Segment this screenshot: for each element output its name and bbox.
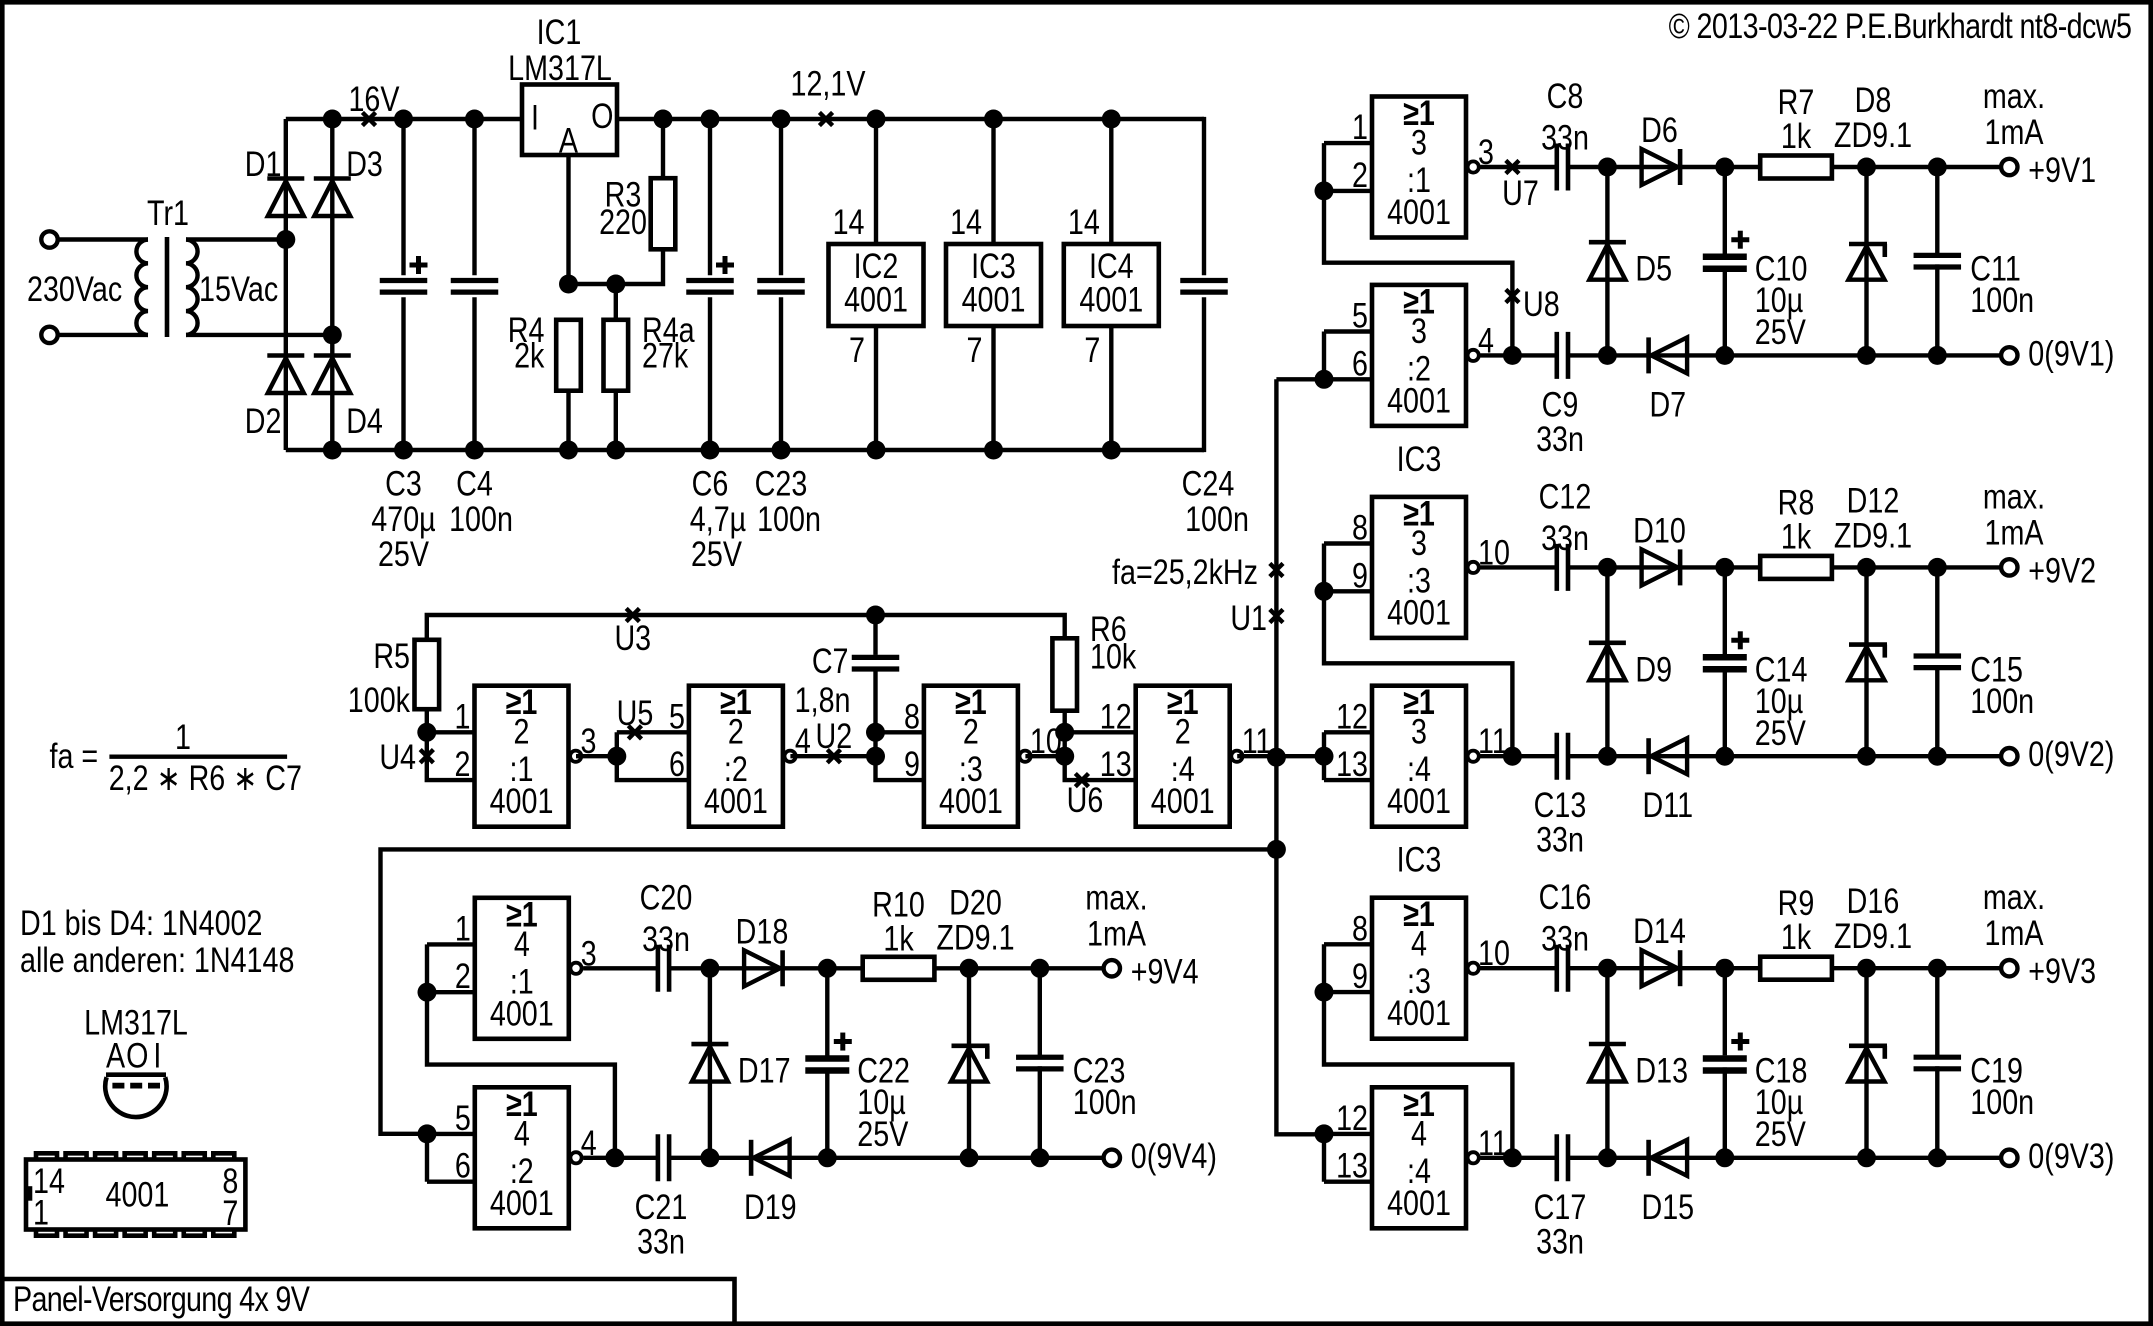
label R10 designator — [872, 885, 925, 924]
svg-text:2,2 ∗ R6 ∗ C7: 2,2 ∗ R6 ∗ C7 — [109, 758, 302, 797]
capacitor C11 — [1914, 255, 1962, 267]
svg-text:2k: 2k — [514, 336, 545, 375]
node node 16V — [362, 112, 375, 125]
svg-text:1k: 1k — [1781, 517, 1812, 556]
svg-text:0(9V1): 0(9V1) — [2028, 334, 2114, 373]
label C22 designator — [857, 1051, 910, 1090]
label IC1 designator — [537, 12, 582, 51]
label node U2 name — [816, 716, 853, 755]
label R9 value 1k — [1781, 917, 1812, 956]
wire R5 to gate 2:1 inputs — [425, 709, 429, 732]
svg-text:1mA: 1mA — [1984, 913, 2044, 952]
label D9 designator — [1635, 650, 1672, 689]
svg-text:33n: 33n — [1536, 1222, 1584, 1261]
svg-text:1mA: 1mA — [1087, 914, 1147, 953]
label output label 0(9V2) — [2028, 734, 2114, 773]
svg-text:3: 3 — [1478, 132, 1494, 171]
label output label 0(9V1) — [2028, 334, 2114, 373]
resistor R8 — [1760, 556, 1832, 579]
diode D2 — [267, 356, 304, 394]
svg-text:U3: U3 — [614, 618, 651, 657]
label C7 designator — [812, 641, 849, 680]
junction 9V2 section node top 1724.8 — [1715, 558, 1734, 577]
label C7 value 1,8n — [795, 680, 851, 719]
wire 9V2 section upper gate input bracket — [1322, 544, 1326, 592]
svg-text:0(9V3): 0(9V3) — [2028, 1136, 2114, 1175]
svg-text:D19: D19 — [744, 1187, 797, 1226]
svg-text:+9V2: +9V2 — [2028, 551, 2096, 590]
label IC2 gate 2:2 pin 6 — [669, 744, 685, 783]
junction 9V3 section node bottom 1866.5 — [1857, 1148, 1876, 1167]
terminal output +9V4 — [1104, 960, 1120, 976]
label IC2 gate 2:3 pin 10 — [1030, 721, 1062, 760]
svg-text:9: 9 — [904, 744, 920, 783]
svg-text:D15: D15 — [1641, 1187, 1694, 1226]
label C20 value 33n — [642, 919, 690, 958]
label node U7 name — [1502, 173, 1539, 212]
capacitor C20 — [658, 945, 669, 992]
junction 9V3 section node bottom 1724.8 — [1715, 1148, 1734, 1167]
svg-text:4001: 4001 — [1387, 781, 1451, 820]
label LM317L pin I — [153, 1036, 161, 1075]
svg-text:C4: C4 — [456, 464, 493, 503]
label D6 designator — [1641, 110, 1678, 149]
label diode D2 designator — [245, 401, 282, 440]
label 9V4 section max. rating — [1085, 878, 1147, 917]
junction ADJ node at R4 — [559, 275, 578, 294]
label C16 value 33n — [1541, 919, 1589, 958]
wire 9V3 section out-cap column top — [1935, 968, 1939, 1055]
svg-text:100k: 100k — [348, 680, 411, 719]
svg-text:C16: C16 — [1539, 877, 1592, 916]
label diode D3 designator — [346, 144, 383, 183]
svg-text:4001: 4001 — [1387, 593, 1451, 632]
wire 9V3 section electrolytic column bottom — [1723, 1067, 1727, 1157]
svg-text:100n: 100n — [1073, 1082, 1137, 1121]
svg-text:4001: 4001 — [490, 781, 554, 820]
svg-text:D3: D3 — [346, 144, 383, 183]
svg-text:fa =: fa = — [50, 736, 99, 775]
label voltage 16V — [348, 79, 400, 118]
svg-text:D2: D2 — [245, 401, 282, 440]
svg-text:© 2013-03-22 P.E.Burkhardt nt8: © 2013-03-22 P.E.Burkhardt nt8-dcw5 — [1669, 6, 2132, 45]
svg-text:230Vac: 230Vac — [27, 269, 122, 308]
label D10 designator — [1633, 511, 1686, 550]
wire 9V3 section bottom wire after C17 — [1568, 1156, 2001, 1160]
wire 9V1 section lower gate input bracket — [1322, 332, 1326, 380]
junction node C7 top — [866, 606, 885, 625]
label C4 value 100n — [449, 499, 513, 538]
junction top rail at R3 — [654, 110, 673, 129]
svg-text:alle anderen: 1N4148: alle anderen: 1N4148 — [20, 940, 294, 979]
terminal output 0(9V2) — [2001, 748, 2017, 764]
label voltage 230Vac — [27, 269, 122, 308]
capacitor C23 (100n) — [757, 119, 805, 450]
capacitor C24 (100n) — [1180, 281, 1228, 453]
wire secondary top to bridge — [186, 237, 286, 241]
diode D10 — [1642, 549, 1681, 585]
junction 9V2 section node bottom 1937.3 — [1928, 747, 1947, 766]
label C3 value 25V — [378, 534, 430, 573]
wire 9V1 section out-cap column bottom — [1935, 264, 1939, 355]
label node fa=25,2kHz — [1112, 552, 1258, 591]
svg-text:C9: C9 — [1542, 385, 1579, 424]
diode D3 — [314, 179, 351, 217]
op-amp-style NOR gate IC4 gate 4:1 (4001 4:1) — [475, 895, 582, 1039]
label R9 designator — [1778, 883, 1815, 922]
junction node R5/pin1 — [417, 723, 436, 742]
wire bridge left column — [284, 119, 288, 450]
label C24 value 100n — [1185, 499, 1249, 538]
label C14 designator — [1755, 650, 1808, 689]
svg-text:0(9V2): 0(9V2) — [2028, 734, 2114, 773]
label LM317L package title — [84, 1003, 188, 1042]
diode D13 — [1589, 1044, 1626, 1082]
label R4 value 'R4' — [508, 310, 545, 349]
label IC2 gate 2:1 pin 2 — [455, 744, 471, 783]
resistor R5 — [415, 640, 440, 709]
label DIP pin 7 — [222, 1193, 238, 1232]
svg-text:25V: 25V — [691, 534, 743, 573]
label IC2 pin 14 number — [833, 202, 865, 241]
svg-text:0(9V4): 0(9V4) — [1131, 1136, 1217, 1175]
junction 9V3 section upper bracket node — [1315, 983, 1334, 1002]
label output label +9V4 — [1131, 952, 1199, 991]
wire 9V2 section zener column — [1864, 567, 1868, 756]
wire gate 2:4 output to bus — [1237, 754, 1276, 758]
junction 9V4 section node top D17 — [700, 959, 719, 978]
svg-text:12: 12 — [1336, 697, 1368, 736]
IC IC3 power block — [946, 244, 1041, 326]
svg-text:100n: 100n — [449, 499, 513, 538]
capacitor C7 — [852, 615, 900, 732]
svg-text:2: 2 — [728, 712, 744, 751]
wire 9V4 section gate 4:2 input bracket — [425, 1134, 429, 1182]
junction 9V4 section gate 4:2 bracket node — [418, 1124, 437, 1143]
label diode D1 designator — [245, 144, 282, 183]
label IC4 gate 4:2 pin 4 — [581, 1123, 597, 1162]
label D13 designator — [1635, 1051, 1688, 1090]
junction 9V1 section node top 1937.3 — [1928, 158, 1947, 177]
capacitor C14 (electrolytic) — [1703, 631, 1750, 669]
svg-text:4001: 4001 — [704, 781, 768, 820]
label C8 designator — [1547, 76, 1584, 115]
terminal output +9V3 — [2001, 960, 2017, 976]
label DIP pin 8 — [222, 1161, 238, 1200]
label C23 value 100n — [757, 499, 821, 538]
svg-text:12: 12 — [1100, 697, 1132, 736]
capacitor C3 (electrolytic 470u) — [380, 119, 428, 450]
svg-text:4001: 4001 — [844, 280, 908, 319]
svg-text:33n: 33n — [642, 919, 690, 958]
svg-text:U6: U6 — [1067, 780, 1104, 819]
diode D19 — [751, 1140, 790, 1176]
wire 9V1 section inter-gate feedback link — [1324, 191, 1512, 356]
svg-text:1mA: 1mA — [1984, 513, 2044, 552]
wire gate 2:1 input bracket — [427, 732, 474, 780]
svg-text:4001: 4001 — [962, 280, 1026, 319]
terminal output 0(9V3) — [2001, 1150, 2017, 1166]
label output label 0(9V4) — [1131, 1136, 1217, 1175]
wire 9V3 section upper gate output wire — [1480, 966, 1556, 970]
label node U1 name — [1230, 598, 1267, 637]
svg-text:9: 9 — [1352, 556, 1368, 595]
label IC1 type LM317L — [508, 48, 612, 87]
svg-text:25V: 25V — [1755, 1114, 1807, 1153]
label 9V2 section lower gate pin 13 — [1336, 744, 1368, 783]
top supply rail 16V — [286, 117, 522, 121]
label 9V3 section upper gate pin 8 — [1352, 909, 1368, 948]
junction top rail at C6 — [701, 110, 720, 129]
svg-text:ZD9.1: ZD9.1 — [1834, 115, 1912, 154]
svg-text:3: 3 — [1411, 712, 1427, 751]
resistor R9 — [1760, 957, 1832, 980]
terminal output 0(9V1) — [2001, 347, 2017, 363]
svg-text:100n: 100n — [1970, 681, 2034, 720]
svg-text:D7: D7 — [1649, 385, 1686, 424]
label formula denominator — [109, 758, 302, 797]
op-amp-style NOR gate IC2 gate 2:1 (4001 2:1) — [475, 682, 582, 826]
label 9V3 section upper gate pin 9 — [1352, 956, 1368, 995]
label R4 value '2k' — [514, 336, 545, 375]
svg-text:5: 5 — [455, 1098, 471, 1137]
LM317L package outline (TO-92 bottom view) — [106, 1072, 166, 1077]
wire gate 2:3 output — [1025, 754, 1064, 758]
label C3 value 470u — [371, 499, 435, 538]
svg-text:+9V3: +9V3 — [2028, 951, 2096, 990]
wire 9V3 section D13 column — [1605, 968, 1609, 1158]
svg-text:33n: 33n — [1536, 419, 1584, 458]
label C17 value 33n — [1536, 1222, 1584, 1261]
label IC2 pin 7 number — [849, 330, 865, 369]
svg-text:4: 4 — [514, 924, 530, 963]
label node U8 name — [1523, 284, 1560, 323]
wire 9V1 section top wire after C8 — [1568, 165, 2001, 169]
svg-text:4: 4 — [514, 1114, 530, 1153]
wire top rail corner to C24 — [1202, 117, 1206, 275]
wire 9V2 section bottom wire after C13 — [1568, 754, 2001, 758]
wire IC2 pin 7 — [874, 326, 878, 450]
label IC3 pin 7 number — [967, 330, 983, 369]
IC IC2 power block — [829, 244, 924, 326]
regulator IC1 LM317L — [522, 85, 617, 156]
svg-text:11: 11 — [1478, 1123, 1508, 1162]
wire 9V3 section lower gate output wire — [1480, 1156, 1556, 1160]
wire 9V3 section inter-gate feedback link — [1324, 992, 1512, 1158]
label output label 0(9V3) — [2028, 1136, 2114, 1175]
wire gate 2:2 output — [790, 754, 875, 758]
resistor R7 — [1760, 156, 1832, 179]
wire 9V1 section zener column — [1864, 167, 1868, 355]
wire R3 top connection — [661, 119, 665, 178]
capacitor C18 (electrolytic) — [1703, 1033, 1750, 1071]
label C23 output value 100n — [1073, 1082, 1137, 1121]
junction 9V2 section node bottom 1607.4 — [1598, 747, 1617, 766]
label C22 value 25V — [857, 1114, 909, 1153]
svg-text:+9V1: +9V1 — [2028, 150, 2096, 189]
label D16 designator — [1847, 881, 1900, 920]
diode D15 — [1649, 1140, 1688, 1176]
svg-text:C13: C13 — [1534, 785, 1587, 824]
svg-text:ZD9.1: ZD9.1 — [1834, 916, 1912, 955]
label D17 designator — [738, 1051, 791, 1090]
capacitor C9 — [1557, 332, 1568, 379]
label C9 designator — [1542, 385, 1579, 424]
wire IC1 adjust pin — [566, 155, 570, 284]
wire 9V4 section D17 column — [708, 968, 712, 1158]
svg-text:4: 4 — [1411, 924, 1427, 963]
IC IC4 power block — [1064, 244, 1159, 326]
label C15 designator — [1970, 650, 2023, 689]
svg-text:C8: C8 — [1547, 76, 1584, 115]
wire 9V1 section upper gate input bracket — [1322, 143, 1326, 191]
svg-text:A: A — [106, 1036, 126, 1075]
svg-text:D14: D14 — [1633, 911, 1686, 950]
wire R6 bottom — [1062, 711, 1066, 733]
transformer Tr1 windings and core — [136, 237, 197, 337]
label IC4 pin 7 number — [1084, 330, 1100, 369]
label IC designator IC3 9V2 section — [1397, 439, 1442, 478]
svg-text:D4: D4 — [346, 401, 383, 440]
svg-text:1mA: 1mA — [1984, 112, 2044, 151]
svg-text:ZD9.1: ZD9.1 — [1834, 516, 1912, 555]
wire 9V4 section lower gate output wire — [583, 1156, 658, 1160]
wire 9V1 section out-cap column top — [1935, 167, 1939, 253]
wire IC2 pin 14 — [874, 119, 878, 244]
capacitor C16 — [1557, 945, 1568, 992]
junction 9V4 section link to 4:2 output node — [605, 1148, 624, 1167]
label 9V1 section lower gate pin 6 — [1352, 344, 1368, 383]
svg-text:max.: max. — [1983, 877, 2045, 916]
svg-text:27k: 27k — [642, 336, 689, 375]
junction top rail at C3 — [394, 110, 413, 129]
wire gate 2:2 input bracket — [617, 732, 688, 780]
label node U4 name — [379, 737, 416, 776]
label 9V2 section lower gate pin 12 — [1336, 697, 1368, 736]
svg-text:ZD9.1: ZD9.1 — [936, 918, 1014, 957]
svg-text:D12: D12 — [1847, 481, 1900, 520]
label IC2 gate 2:1 pin 3 — [581, 721, 597, 760]
terminal mains input top — [41, 231, 57, 247]
svg-text:I: I — [153, 1036, 161, 1075]
svg-text:4001: 4001 — [1079, 280, 1143, 319]
junction top rail at IC2 pin14 — [867, 110, 886, 129]
label C15 value 100n — [1970, 681, 2034, 720]
junction bottom rail at C23 — [772, 441, 791, 460]
label output label +9V1 — [2028, 150, 2096, 189]
wire gate 2:3 input bracket — [876, 732, 923, 780]
svg-text:U5: U5 — [617, 693, 654, 732]
wire IC3 pin 14 — [991, 119, 995, 244]
svg-text:D20: D20 — [949, 883, 1002, 922]
label D8 value ZD9.1 — [1834, 115, 1912, 154]
junction 9V3 lower bracket node — [1315, 1124, 1334, 1143]
label D15 designator — [1641, 1187, 1694, 1226]
junction 9V3 section node top 1937.3 — [1928, 959, 1947, 978]
svg-text:C20: C20 — [640, 878, 693, 917]
label D11 designator — [1643, 785, 1694, 824]
svg-text:4001: 4001 — [490, 994, 554, 1033]
op-amp-style NOR gate IC2 gate 2:2 (4001 2:2) — [689, 682, 796, 826]
svg-text:4: 4 — [1411, 1114, 1427, 1153]
svg-text:D17: D17 — [738, 1051, 791, 1090]
svg-text:1: 1 — [33, 1193, 49, 1232]
label output label +9V3 — [2028, 951, 2096, 990]
label C13 value 33n — [1536, 820, 1584, 859]
terminal mains input bottom — [41, 327, 57, 343]
junction 9V1 section node bottom 1937.3 — [1928, 346, 1947, 365]
node node U2 — [827, 750, 840, 763]
label C6 value 25V — [691, 534, 743, 573]
label C12 value 33n — [1541, 518, 1589, 557]
junction 9V2 section node bottom 1866.5 — [1857, 747, 1876, 766]
junction bottom rail at R4 — [559, 441, 578, 460]
junction bottom rail at C4 — [465, 441, 484, 460]
svg-text:C21: C21 — [635, 1187, 688, 1226]
junction bus node to 9V4 section — [1267, 840, 1286, 859]
label node U6 name — [1067, 780, 1104, 819]
svg-text:U1: U1 — [1230, 598, 1267, 637]
svg-text:2: 2 — [1352, 155, 1368, 194]
label C18 value 10u — [1755, 1082, 1803, 1121]
label formula fa = — [50, 736, 99, 775]
svg-text:4001: 4001 — [1151, 781, 1215, 820]
label IC4 gate 4:1 pin 1 — [455, 909, 471, 948]
label IC designator IC3 9V3 section — [1397, 840, 1442, 879]
svg-text:max.: max. — [1085, 878, 1147, 917]
wire gate 2:4 input bracket — [1065, 732, 1135, 780]
label C21 designator — [635, 1187, 688, 1226]
label LM317L pin O — [126, 1036, 148, 1075]
wire 9V2 section lower gate input bracket — [1322, 732, 1326, 780]
junction ADJ node at R4a — [606, 275, 625, 294]
label 9V1 section upper gate pin 2 — [1352, 155, 1368, 194]
junction bottom rail at C6 — [701, 441, 720, 460]
wire 9V4 section C23 column bottom — [1038, 1066, 1042, 1158]
label IC2 gate 2:4 pin 12 — [1100, 697, 1132, 736]
label C10 value 10u — [1755, 280, 1803, 319]
label D18 designator — [736, 912, 789, 951]
diode D18 — [744, 950, 783, 986]
junction 9V3 section node top 1866.5 — [1857, 959, 1876, 978]
op-amp-style NOR gate 9V1 section lower gate (4001 3:2) — [1372, 282, 1479, 426]
svg-text:33n: 33n — [1541, 518, 1589, 557]
junction top rail at IC4 pin14 — [1102, 110, 1121, 129]
svg-text:IC3: IC3 — [1397, 840, 1442, 879]
capacitor C8 — [1557, 144, 1568, 191]
svg-text:10k: 10k — [1090, 637, 1137, 676]
svg-text:12,1V: 12,1V — [791, 64, 867, 103]
junction node 2:2 out / 2:3 in — [866, 747, 885, 766]
svg-text:2: 2 — [963, 712, 979, 751]
label IC4 pin 14 number — [1068, 202, 1100, 241]
label C10 value 25V — [1755, 312, 1807, 351]
wire IC4 pin 7 — [1109, 326, 1113, 450]
svg-text:4001: 4001 — [1387, 192, 1451, 231]
label R4a value '27k' — [642, 336, 689, 375]
svg-text:8: 8 — [1352, 909, 1368, 948]
svg-text:C17: C17 — [1534, 1187, 1587, 1226]
diode D7 — [1649, 337, 1688, 373]
label C10 designator — [1755, 249, 1808, 288]
oscillator feedback wire — [427, 615, 1065, 640]
junction 9V3 section node bottom 1937.3 — [1928, 1148, 1947, 1167]
zener diode D20 — [951, 1046, 990, 1082]
IC package 4001 DIP-14 — [25, 1153, 246, 1235]
svg-text:IC3: IC3 — [1397, 439, 1442, 478]
svg-text:100n: 100n — [757, 499, 821, 538]
label C13 designator — [1534, 785, 1587, 824]
